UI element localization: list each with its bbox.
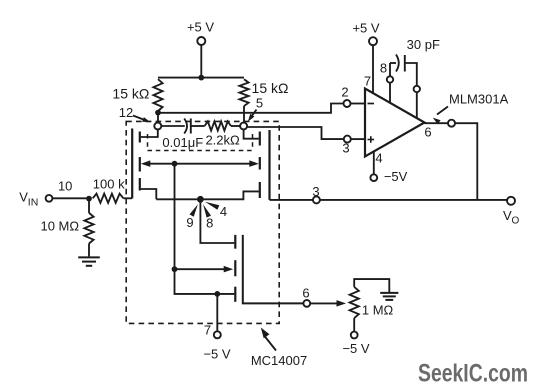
label Vin — [19, 190, 38, 209]
ground (input) — [78, 257, 100, 265]
label MLM301A — [449, 91, 509, 106]
svg-text:IN: IN — [28, 196, 39, 208]
wire R4 to Q1 gate — [123, 197, 132, 199]
IC MC14007 dashed outline — [126, 121, 279, 323]
pin 10 label — [58, 179, 72, 194]
svg-text:6: 6 — [424, 125, 431, 140]
wire body rail double arrow — [141, 160, 259, 167]
wire Vin to node — [52, 197, 89, 199]
svg-text:15 kΩ: 15 kΩ — [112, 86, 149, 102]
svg-text:−5 V: −5 V — [203, 347, 230, 362]
wire pin12 to C1 — [161, 125, 185, 127]
svg-text:+5 V: +5 V — [187, 20, 214, 35]
resistor R6 label — [40, 219, 79, 234]
svg-text:3: 3 — [342, 141, 349, 156]
pin 8 wire and terminal — [387, 63, 396, 103]
transistor Q3 body bar — [234, 260, 236, 276]
pin 6 terminal (op-amp output) — [448, 120, 455, 127]
junction body rail to Q3 dot — [172, 266, 178, 272]
pin 3 label (MC14007 output) — [312, 184, 319, 199]
svg-text:3: 3 — [312, 184, 319, 199]
resistor R3 label — [205, 132, 240, 147]
svg-text:2.2kΩ: 2.2kΩ — [205, 132, 240, 147]
capacitor C1 label — [162, 135, 203, 150]
power -5V label (pin 7) — [203, 347, 230, 362]
transistor Q3 source bar — [234, 287, 236, 302]
capacitor C2 label — [407, 37, 440, 52]
wire pot bottom to -5V — [353, 318, 355, 332]
pin 5 label and arrow — [248, 96, 263, 122]
svg-text:7: 7 — [364, 74, 371, 89]
terminal -5V (pot) — [351, 332, 358, 339]
wire drain1 to op-amp inverting input — [158, 104, 344, 113]
svg-text:2: 2 — [341, 85, 348, 100]
pin 4 callout — [205, 202, 227, 219]
op-amp plus sign — [368, 136, 375, 143]
junction body rail dot — [172, 161, 178, 167]
junction input dot — [86, 196, 92, 202]
wire pin 1 to op-amp — [416, 92, 418, 118]
resistor R2 15 kΩ — [239, 79, 248, 122]
power +5V supply (left) — [187, 20, 214, 78]
transistor Q1 source bar — [139, 178, 141, 191]
label MC14007 — [251, 353, 307, 368]
svg-text:12: 12 — [119, 105, 133, 120]
pin 8 callout — [203, 204, 213, 230]
wire source to pin 7 — [216, 294, 218, 331]
svg-text:SeekIC.com: SeekIC.com — [418, 360, 528, 388]
wire output line to Vo — [270, 199, 508, 201]
svg-text:6: 6 — [302, 285, 309, 300]
transistor Q1 body bar — [139, 157, 141, 172]
wire pin3 to op-amp — [351, 138, 366, 140]
pin 6 terminal (MC14007) — [303, 300, 310, 307]
transistor Q2 body bar — [259, 157, 261, 170]
node pins 9 8 4 dot — [197, 196, 204, 203]
feedback wire output down to Vo line — [455, 123, 477, 200]
svg-text:10: 10 — [58, 179, 72, 194]
wire node to Q3 drain — [200, 199, 234, 243]
resistor R1 15 kΩ label — [112, 86, 149, 102]
pin 6 label (MC14007) — [302, 285, 309, 300]
svg-text:−5V: −5V — [384, 169, 408, 184]
op-amp U1 MLM301A — [365, 89, 425, 157]
svg-text:15 kΩ: 15 kΩ — [252, 80, 289, 96]
capacitor C1 0.01uF — [184, 119, 191, 134]
svg-text:−5 V: −5 V — [342, 341, 369, 356]
label 1 Mohm — [362, 302, 394, 317]
pin 7 wire and +5V terminal — [352, 21, 379, 94]
label Vo — [503, 208, 520, 227]
svg-text:8: 8 — [206, 216, 213, 231]
wire Q1 source lead — [141, 189, 157, 199]
svg-text:7: 7 — [204, 323, 211, 338]
resistor R6 10 Mohm — [84, 199, 93, 257]
pin 2 terminal — [344, 100, 351, 107]
wire Q1 drain to pin 12 — [141, 130, 158, 138]
svg-text:100 k: 100 k — [93, 177, 125, 192]
terminal Vin — [46, 195, 53, 202]
terminal Vo — [507, 197, 515, 205]
svg-text:MC14007: MC14007 — [251, 353, 307, 368]
svg-text:0.01μF: 0.01μF — [162, 135, 203, 150]
feedback network dashed box — [148, 134, 253, 151]
label arrow to MC14007 box — [261, 328, 276, 351]
pin 9 callout — [186, 204, 198, 230]
wire body arrow to Q3 — [175, 266, 234, 273]
transistor Q1 gate bar — [131, 129, 133, 199]
pin 3 terminal (op-amp input) — [344, 136, 351, 143]
power -5V label (pot) — [342, 341, 369, 356]
wire C2 to pin 1 — [405, 63, 417, 86]
wire pin2 to op-amp — [351, 103, 366, 105]
svg-text:O: O — [512, 216, 520, 227]
resistor R2 15 kΩ label — [252, 80, 289, 96]
pin 2 label — [341, 85, 348, 100]
wire top rail — [158, 77, 244, 79]
capacitor C2 30 pF — [396, 55, 405, 72]
svg-text:+5 V: +5 V — [352, 21, 379, 36]
pin 5 terminal — [240, 123, 247, 130]
wire common source line — [156, 191, 258, 199]
junction source to pin 7 dot — [214, 291, 220, 297]
svg-text:4: 4 — [375, 151, 382, 166]
pin 4 wire and -5V terminal — [370, 151, 407, 184]
wire node to pin 12 — [157, 113, 159, 123]
ground (pot) — [380, 293, 398, 300]
svg-text:8: 8 — [380, 60, 387, 75]
junction rail dot — [198, 75, 204, 81]
wire Q2 drain to pin 5 — [244, 130, 259, 139]
wire pot top to ground — [354, 279, 389, 292]
pin 12 label and arrow — [119, 105, 151, 122]
pin 1 terminal — [414, 86, 420, 92]
pin 4 label — [375, 151, 382, 166]
pin 12 terminal — [154, 123, 161, 130]
pin 7 label — [204, 323, 211, 338]
svg-text:1 MΩ: 1 MΩ — [362, 302, 394, 317]
wire pin6 to pot wiper — [310, 300, 346, 307]
svg-text:4: 4 — [220, 204, 227, 219]
label arrow to op-amp — [433, 107, 448, 125]
svg-text:9: 9 — [186, 215, 193, 230]
op-amp output wire — [425, 122, 449, 124]
pin 3 terminal (MC14007 output) — [313, 196, 320, 203]
svg-text:30 pF: 30 pF — [407, 37, 440, 52]
resistor R4 label — [93, 177, 125, 192]
pin 6 label (op-amp) — [424, 125, 431, 140]
svg-text:10 MΩ: 10 MΩ — [40, 219, 79, 234]
wire body rail down — [175, 164, 235, 294]
pin 7 terminal — [214, 331, 221, 338]
transistor Q3 drain bar — [234, 235, 236, 249]
wire C1 to R3 — [191, 125, 205, 127]
resistor R4 100 k — [93, 194, 124, 203]
svg-text:MLM301A: MLM301A — [449, 91, 509, 106]
transistor Q1 drain bar — [139, 132, 141, 143]
pin 8 label — [380, 60, 387, 75]
wire R3 to pin5 — [231, 125, 240, 127]
resistor R3 2.2 kΩ — [205, 121, 232, 130]
pin 3 label (op-amp input) — [342, 141, 349, 156]
transistor Q2 source bar — [259, 182, 261, 198]
watermark SeekIC.com — [418, 360, 528, 388]
transistor Q2 gate bar — [268, 130, 270, 200]
node drain1 dot — [155, 110, 161, 116]
pin 7 label — [364, 74, 371, 89]
transistor Q2 drain bar — [259, 132, 261, 146]
resistor R1 15 kΩ — [153, 79, 162, 111]
svg-text:5: 5 — [256, 96, 263, 111]
wire pin5 to op-amp noninverting input — [247, 127, 344, 139]
op-amp minus sign — [368, 103, 375, 105]
transistor Q3 gate bar — [243, 235, 303, 304]
potentiometer R5 1 Mohm — [350, 287, 359, 318]
